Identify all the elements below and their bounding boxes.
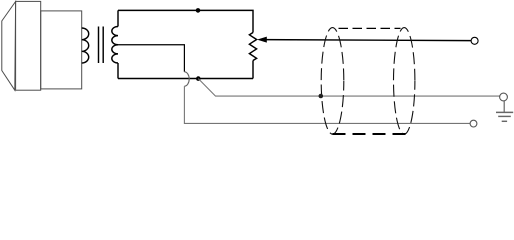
terminal pin 1 circle (shield): [500, 93, 508, 101]
transformer T1 secondary winding (center-tapped): [112, 27, 118, 64]
terminal pin 2 circle (hot): [471, 37, 478, 44]
wiper output wire to pin 2 terminal: [264, 40, 471, 41]
shield connection dot: [319, 94, 324, 99]
cable shield bottom dashed line: [333, 133, 407, 135]
wire from bottom rail junction to pin 1 / shield: [198, 79, 499, 97]
ground bar 2: [498, 115, 511, 117]
wire from potentiometer bottom to bottom rail: [252, 61, 254, 79]
junction dot on bottom rail: [196, 76, 201, 81]
transformer core line 1: [98, 27, 100, 64]
ground stem from pin 1: [503, 101, 505, 113]
ground bar 1: [496, 111, 513, 113]
cable shield left ellipse: [321, 28, 344, 135]
secondary center tap wire: [118, 45, 184, 72]
secondary bottom terminal wire: [117, 63, 119, 79]
transformer core line 2: [102, 27, 104, 64]
cable shield right ellipse: [394, 28, 415, 135]
center tap wire continues down to pin 3: [184, 86, 470, 123]
microphone connector housing rectangle: [41, 11, 82, 89]
terminal pin 3 circle: [470, 120, 477, 127]
wire hop over bottom rail: [184, 72, 189, 86]
junction dot on top wire: [196, 8, 201, 13]
transformer T1 primary winding: [82, 28, 89, 63]
microphone cartridge (trapezoid): [2, 2, 16, 91]
top wire from secondary to potentiometer: [118, 10, 253, 32]
potentiometer wiper arrowhead: [257, 37, 267, 43]
secondary top terminal wire: [117, 10, 119, 26]
cable shield top dashed line: [334, 27, 401, 29]
potentiometer R1 zigzag: [249, 33, 256, 61]
microphone body rectangle: [16, 1, 41, 90]
bottom rail wire (secondary bottom to pot bottom): [118, 78, 253, 80]
ground bar 3: [502, 120, 507, 122]
